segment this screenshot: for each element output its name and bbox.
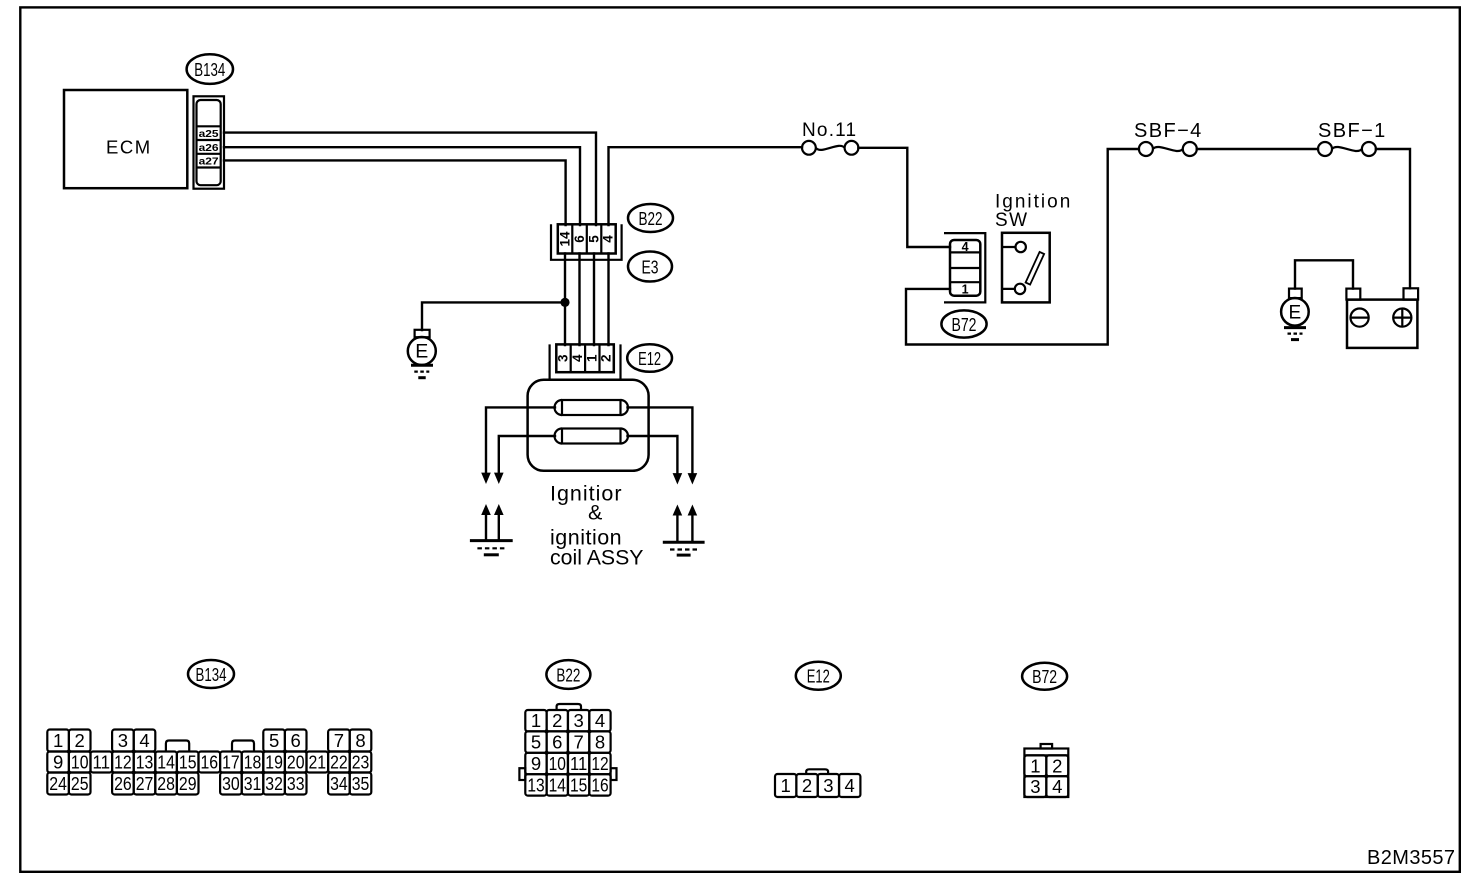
svg-text:E3: E3 bbox=[642, 256, 659, 277]
svg-text:19: 19 bbox=[265, 752, 283, 773]
svg-text:ECM: ECM bbox=[106, 137, 152, 158]
ground (left sparks) bbox=[470, 539, 513, 542]
svg-text:32: 32 bbox=[265, 773, 283, 794]
B72 keying tab bbox=[1041, 744, 1053, 749]
svg-text:16: 16 bbox=[591, 774, 608, 795]
svg-text:8: 8 bbox=[355, 730, 365, 751]
svg-text:SBF−1: SBF−1 bbox=[1318, 120, 1387, 142]
svg-text:3: 3 bbox=[556, 354, 571, 362]
junction bbox=[560, 298, 569, 307]
svg-text:13: 13 bbox=[527, 774, 544, 795]
svg-text:5: 5 bbox=[586, 235, 601, 243]
svg-text:14: 14 bbox=[558, 231, 573, 247]
svg-text:10: 10 bbox=[549, 753, 566, 774]
ground E (left) bbox=[415, 330, 430, 337]
wire B22 pin4 to E12 pin2 bbox=[607, 254, 609, 346]
fuse No.11 bbox=[802, 141, 816, 155]
svg-text:29: 29 bbox=[179, 773, 197, 794]
svg-text:2: 2 bbox=[75, 730, 85, 751]
label E12 (top) bbox=[627, 344, 672, 372]
connector B72 (pins 4 / 1) bbox=[950, 240, 980, 296]
svg-text:B72: B72 bbox=[1032, 666, 1057, 687]
svg-text:1: 1 bbox=[962, 283, 969, 297]
ECM bbox=[64, 90, 187, 188]
svg-text:26: 26 bbox=[114, 773, 132, 794]
svg-text:6: 6 bbox=[572, 235, 587, 243]
wire ECM a25 to B22 pin 5 bbox=[224, 133, 596, 225]
svg-text:9: 9 bbox=[53, 752, 63, 773]
svg-text:a25: a25 bbox=[199, 128, 219, 140]
svg-text:21: 21 bbox=[309, 752, 327, 773]
connector B134 on ECM, pins a25 a26 a27 bbox=[194, 96, 225, 188]
wire B22 pin14 to E12 pin3 bbox=[564, 254, 566, 346]
svg-text:B134: B134 bbox=[194, 59, 225, 80]
svg-text:33: 33 bbox=[287, 773, 305, 794]
E12 keying tab bbox=[806, 769, 828, 774]
wire junction to ground E bbox=[422, 302, 565, 330]
wire coil1 left lead bbox=[486, 407, 555, 473]
svg-text:1: 1 bbox=[531, 710, 541, 731]
svg-text:4: 4 bbox=[570, 354, 585, 362]
label B22 (top) bbox=[628, 204, 673, 232]
svg-text:14: 14 bbox=[549, 774, 566, 795]
svg-text:&: & bbox=[588, 501, 602, 525]
svg-text:3: 3 bbox=[573, 710, 583, 731]
svg-text:25: 25 bbox=[71, 773, 89, 794]
svg-text:4: 4 bbox=[962, 240, 969, 254]
wire battery - to ground E bbox=[1295, 260, 1353, 288]
svg-text:B2M3557: B2M3557 bbox=[1367, 847, 1455, 869]
svg-text:10: 10 bbox=[71, 752, 89, 773]
connector E12 (pins 3 4 1 2) bbox=[556, 344, 614, 372]
svg-text:15: 15 bbox=[570, 774, 587, 795]
svg-text:3: 3 bbox=[1030, 776, 1040, 797]
svg-text:11: 11 bbox=[93, 752, 111, 773]
bracket E12 bbox=[550, 344, 621, 379]
B22 keying tabs bbox=[557, 704, 581, 710]
svg-text:No.11: No.11 bbox=[802, 120, 857, 141]
svg-text:1: 1 bbox=[781, 775, 791, 796]
fusible link SBF-4 bbox=[1139, 142, 1153, 156]
wire B22 pin 4 to fuse No.11 bbox=[609, 147, 803, 225]
svg-text:B22: B22 bbox=[556, 664, 580, 685]
svg-text:3: 3 bbox=[118, 730, 128, 751]
fusible link SBF-1 bbox=[1318, 142, 1332, 156]
connector B22/E3 (pins 14 6 5 4) bbox=[558, 224, 616, 253]
bracket E3 side bbox=[551, 224, 622, 259]
svg-text:8: 8 bbox=[595, 732, 605, 753]
spark arrows to ground (right) bbox=[673, 505, 683, 516]
wire fuse No.11 to B72 pin 4 bbox=[858, 148, 950, 247]
svg-text:31: 31 bbox=[244, 773, 262, 794]
svg-text:4: 4 bbox=[595, 710, 605, 731]
svg-text:2: 2 bbox=[802, 775, 812, 796]
svg-text:5: 5 bbox=[269, 730, 279, 751]
pinout B72 label bbox=[1022, 663, 1067, 690]
ignition coil 1 bbox=[562, 400, 621, 415]
label B134 (top) bbox=[187, 54, 233, 84]
svg-text:4: 4 bbox=[139, 730, 149, 751]
svg-text:23: 23 bbox=[352, 752, 370, 773]
ignition switch bbox=[1002, 233, 1050, 303]
svg-text:4: 4 bbox=[601, 235, 616, 243]
ignitor and ignition coil ASSY box bbox=[528, 380, 649, 471]
svg-text:B134: B134 bbox=[196, 664, 227, 685]
svg-text:E: E bbox=[1289, 303, 1302, 324]
svg-text:1: 1 bbox=[584, 354, 599, 362]
wire coil2 left lead bbox=[499, 436, 555, 473]
pinout E12 label bbox=[796, 662, 841, 690]
svg-text:9: 9 bbox=[531, 753, 541, 774]
spark arrows to ground (left) bbox=[481, 504, 491, 515]
svg-text:2: 2 bbox=[552, 710, 562, 731]
ground (right sparks) bbox=[663, 541, 705, 544]
wire coil2 right lead bbox=[628, 436, 678, 474]
wire SBF-1 to battery + bbox=[1376, 149, 1410, 288]
svg-text:12: 12 bbox=[591, 753, 608, 774]
svg-text:coil ASSY: coil ASSY bbox=[550, 545, 644, 569]
svg-text:20: 20 bbox=[287, 752, 305, 773]
pinout connector B22 bbox=[525, 710, 546, 731]
svg-text:B22: B22 bbox=[639, 208, 663, 229]
svg-text:4: 4 bbox=[1052, 776, 1062, 797]
bracket B72 bbox=[944, 233, 985, 302]
svg-text:28: 28 bbox=[157, 773, 175, 794]
wire ECM a26 to B22 pin 6 bbox=[224, 147, 580, 225]
svg-text:12: 12 bbox=[114, 752, 132, 773]
svg-text:a26: a26 bbox=[199, 142, 219, 154]
svg-text:7: 7 bbox=[334, 730, 344, 751]
svg-text:5: 5 bbox=[531, 732, 541, 753]
wire B22 pin5 to E12 pin1 bbox=[593, 254, 595, 346]
label B72 (top) bbox=[941, 310, 986, 337]
svg-text:14: 14 bbox=[157, 752, 175, 773]
B134 keying tabs bbox=[166, 741, 189, 752]
pinout connector E12 bbox=[775, 774, 796, 797]
svg-text:24: 24 bbox=[49, 773, 67, 794]
ground E (battery) bbox=[1289, 289, 1302, 299]
svg-text:6: 6 bbox=[291, 730, 301, 751]
svg-text:30: 30 bbox=[222, 773, 240, 794]
wire SBF-4 to SBF-1 bbox=[1197, 148, 1318, 150]
svg-text:18: 18 bbox=[244, 752, 262, 773]
svg-text:Ignitior: Ignitior bbox=[550, 482, 623, 506]
svg-text:16: 16 bbox=[201, 752, 219, 773]
pinout connector B72 bbox=[1024, 749, 1068, 798]
svg-text:22: 22 bbox=[330, 752, 348, 773]
svg-text:15: 15 bbox=[179, 752, 197, 773]
ignition coil 2 bbox=[562, 429, 621, 444]
wire ECM a27 to B22 pin 14 bbox=[224, 160, 566, 225]
svg-text:2: 2 bbox=[599, 355, 614, 363]
svg-text:2: 2 bbox=[1052, 755, 1062, 776]
battery bbox=[1347, 300, 1417, 348]
svg-text:35: 35 bbox=[352, 773, 370, 794]
wire coil1 right lead bbox=[628, 407, 693, 473]
svg-text:17: 17 bbox=[222, 752, 240, 773]
svg-text:7: 7 bbox=[573, 732, 583, 753]
pinout B22 label bbox=[546, 660, 590, 689]
wire B72 pin 1 to SBF-4 bbox=[906, 149, 1139, 345]
svg-text:SW: SW bbox=[995, 210, 1028, 231]
svg-text:E12: E12 bbox=[807, 666, 830, 687]
svg-text:3: 3 bbox=[823, 775, 833, 796]
svg-text:E: E bbox=[415, 341, 428, 363]
svg-text:27: 27 bbox=[136, 773, 154, 794]
svg-text:1: 1 bbox=[1030, 755, 1040, 776]
svg-text:E12: E12 bbox=[638, 348, 661, 369]
svg-text:13: 13 bbox=[136, 752, 154, 773]
wire B22 pin6 to E12 pin4 bbox=[578, 254, 580, 346]
svg-text:4: 4 bbox=[845, 775, 855, 796]
svg-text:34: 34 bbox=[330, 773, 348, 794]
svg-text:a27: a27 bbox=[199, 156, 219, 168]
label E3 bbox=[628, 252, 672, 282]
svg-text:6: 6 bbox=[552, 732, 562, 753]
pinout B134 label bbox=[188, 660, 234, 688]
svg-text:11: 11 bbox=[570, 753, 587, 774]
svg-text:1: 1 bbox=[53, 730, 63, 751]
svg-text:SBF−4: SBF−4 bbox=[1134, 120, 1203, 142]
pinout connector B134 bbox=[47, 730, 69, 752]
svg-text:B72: B72 bbox=[952, 314, 977, 335]
